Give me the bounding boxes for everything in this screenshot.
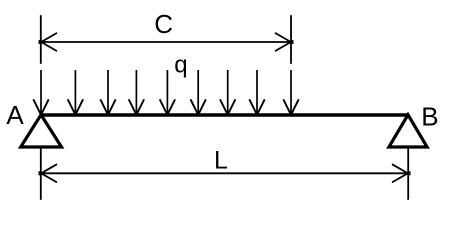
C dimension extension line right: [290, 15, 292, 64]
svg-text:q: q: [174, 52, 187, 79]
distributed load arrow 3: [100, 70, 115, 115]
distributed load arrow 7: [220, 70, 235, 115]
L dimension line: [41, 172, 408, 174]
distributed load arrow 8: [249, 70, 264, 115]
support B (pin triangle): [389, 115, 427, 147]
L dimension extension line left: [40, 149, 42, 200]
L dimension extension line right: [407, 149, 409, 200]
beam: [41, 113, 408, 117]
svg-text:B: B: [421, 102, 438, 132]
svg-text:A: A: [6, 100, 24, 130]
L dimension left arrowhead: [39, 164, 58, 182]
support A (pin triangle): [21, 115, 62, 147]
C dimension right arrowhead: [275, 33, 294, 51]
distributed load arrow 1: [33, 70, 48, 115]
C dimension line: [41, 41, 291, 43]
C dimension left arrowhead: [39, 33, 58, 51]
svg-text:C: C: [154, 9, 173, 39]
distributed load arrow 9: [283, 70, 298, 115]
distributed load arrow 5: [160, 70, 175, 115]
distributed load arrow 2: [68, 70, 83, 115]
C dimension extension line left: [40, 15, 42, 64]
L dimension right arrowhead: [392, 164, 411, 182]
distributed load arrow 6: [191, 70, 206, 115]
svg-text:L: L: [214, 147, 228, 175]
distributed load arrow 4: [129, 70, 144, 115]
